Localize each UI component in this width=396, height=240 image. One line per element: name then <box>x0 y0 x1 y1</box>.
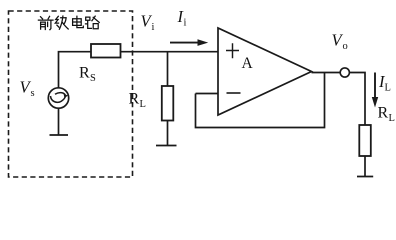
feedback wire loop (output to - input) <box>196 73 325 128</box>
svg-text:i: i <box>152 22 155 33</box>
current arrow Ii <box>170 42 199 44</box>
plus marker (+ input) <box>226 43 239 58</box>
svg-text:o: o <box>343 41 348 52</box>
label Vs <box>20 7 395 124</box>
svg-text:R: R <box>129 91 140 108</box>
wire: Rs to op-amp + input (node Vi) <box>121 51 219 53</box>
svg-text:i: i <box>184 18 187 29</box>
wire: terminal to load <box>349 73 365 126</box>
dashed box (preceding-stage circuit enclosure) <box>9 11 133 177</box>
source Vs (AC source circle with sine arrow) <box>48 88 68 108</box>
wire: op-amp output <box>312 72 341 74</box>
resistor RL (left, input side) <box>162 86 174 121</box>
minus marker (- input) <box>227 92 241 94</box>
svg-text:A: A <box>242 55 254 72</box>
svg-text:L: L <box>389 113 395 124</box>
svg-text:R: R <box>79 65 90 82</box>
ground bar (left RL) <box>156 145 177 147</box>
svg-text:L: L <box>385 83 391 94</box>
output terminal circle <box>340 68 349 77</box>
svg-text:L: L <box>140 99 146 110</box>
label 前级电路 (hand-drawn glyphs) <box>38 16 99 30</box>
svg-text:s: s <box>31 88 35 99</box>
wire: source top to Rs <box>59 52 92 88</box>
wire: - input stub <box>196 93 219 95</box>
svg-text:S: S <box>90 73 96 84</box>
resistor RS <box>91 44 121 58</box>
ground bar (right RL) <box>357 176 373 178</box>
wire: left RL to ground <box>167 121 169 146</box>
wire: Vi node down to left RL <box>167 52 169 86</box>
op-amp A (triangle) <box>218 28 312 115</box>
wire: right RL to ground <box>364 156 366 177</box>
resistor RL (right, load) <box>359 125 371 156</box>
ground bar (source) <box>50 134 69 136</box>
svg-text:R: R <box>378 105 389 122</box>
current arrow IL <box>374 73 376 99</box>
wire: source bottom to ground <box>58 108 60 135</box>
